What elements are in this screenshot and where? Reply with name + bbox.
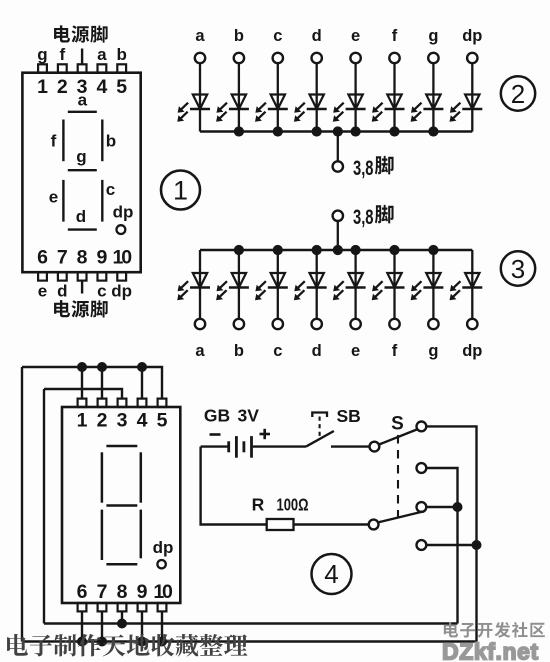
svg-text:6: 6: [77, 581, 88, 603]
svg-text:3V: 3V: [238, 406, 260, 426]
svg-text:7: 7: [57, 247, 68, 269]
svg-text:g: g: [37, 45, 47, 64]
U2 decimal point dp: [153, 538, 174, 568]
U2 figure-8 segment lower-right: [140, 510, 143, 559]
svg-text:SB: SB: [337, 406, 361, 426]
junction pin 10: [157, 637, 167, 647]
battery plus sign: [260, 429, 271, 439]
U2 pin 8 bottom lead: [117, 581, 128, 611]
diagram2 common terminal wire (pins 3,8): [333, 132, 343, 172]
junction pin 4: [137, 362, 147, 372]
wire: battery positive to SB: [253, 445, 306, 447]
U2 figure-8 segment upper-left: [101, 452, 104, 502]
diagram2 common stem junction: [333, 126, 343, 136]
diagram3 LED b with terminal: [216, 250, 249, 360]
junction pin 9: [137, 637, 147, 647]
svg-text:8: 8: [117, 581, 128, 603]
wire: SB to switch pole 1: [331, 445, 369, 447]
diagram3 bus junction: [234, 245, 244, 255]
U1 top power-pin label 电源脚: [54, 25, 108, 42]
diagram3 label 3,8脚: [353, 205, 394, 229]
svg-text:f: f: [59, 45, 65, 64]
wire: segment bus bottom (pins 6,7,9,10): [22, 640, 477, 642]
junction contact 3 / common rail: [453, 502, 463, 512]
U1 segment b: [102, 120, 116, 162]
U2 pin 10 bottom lead: [153, 581, 173, 611]
diagram3 bus junction: [351, 245, 361, 255]
diagram3 bus junction: [428, 245, 438, 255]
diagram2 LED e with terminal: [333, 27, 366, 132]
U1 segment a: [68, 91, 97, 112]
svg-text:1: 1: [173, 176, 188, 206]
callout circle 1: [161, 171, 200, 210]
svg-text:d: d: [57, 282, 67, 301]
svg-text:a: a: [78, 91, 88, 110]
svg-text:DZkf.net: DZkf.net: [442, 639, 539, 662]
junction contact 4 / right rail: [472, 540, 482, 550]
switch S pole 1 blade: [380, 429, 418, 444]
wire: pin 1 riser: [81, 367, 83, 399]
U2 pin 9 bottom lead: [137, 581, 148, 611]
U2 pin 4 top lead: [137, 399, 148, 432]
svg-text:d: d: [312, 27, 322, 45]
switch S pole 1 common: [370, 442, 380, 452]
svg-text:f: f: [392, 27, 398, 45]
diagram2 label 3,8脚: [353, 156, 394, 180]
callout circle 4: [312, 554, 352, 594]
svg-text:5: 5: [157, 410, 168, 432]
diagram2 LED g with terminal: [411, 27, 444, 132]
junction pin 6: [77, 637, 87, 647]
svg-text:1: 1: [77, 410, 88, 432]
U1 pin 2 top lead: [57, 45, 68, 98]
U1 pin 10 bottom lead: [111, 247, 132, 301]
diagram3 common anode bus wire: [200, 249, 472, 252]
U1 segment c: [102, 180, 115, 222]
U1 pin 7 bottom lead: [57, 247, 68, 301]
diagram2 LED b with terminal: [216, 27, 249, 132]
svg-text:b: b: [117, 45, 127, 64]
callout circle 2: [501, 76, 535, 110]
svg-text:d: d: [312, 342, 322, 360]
diagram3 bus junction: [312, 245, 322, 255]
svg-text:c: c: [106, 180, 115, 199]
wire: common bus top (pin 3): [44, 389, 122, 399]
U2 pin 6 bottom lead: [77, 581, 88, 611]
wire: common bus bottom (pin 8): [44, 622, 458, 624]
diagram3 LED dp with terminal: [450, 250, 483, 360]
diagram3 common terminal wire (pins 3,8): [333, 211, 343, 250]
wire: contact 3 stub: [427, 506, 458, 508]
push button SB: [306, 413, 334, 447]
switch S gang link (dashed): [397, 435, 399, 524]
wire: pin 6 drop: [81, 611, 83, 641]
svg-text:g: g: [428, 27, 438, 45]
svg-text:6: 6: [37, 247, 48, 269]
diagram3 LED d with terminal: [294, 250, 327, 360]
svg-text:b: b: [106, 132, 116, 151]
U1 segment d: [68, 207, 97, 230]
U1 segment e: [49, 180, 64, 222]
U1 segment f: [51, 120, 64, 162]
U2 pin 2 top lead: [97, 399, 108, 432]
switch S pole 2 blade: [379, 512, 423, 523]
junction pin 8: [117, 619, 127, 629]
diagram2 bus junction: [428, 126, 438, 136]
switch S contact 2: [417, 463, 427, 473]
svg-text:8: 8: [77, 247, 88, 269]
U1 pin 3 top lead: [77, 49, 88, 98]
U1 decimal point dp: [113, 203, 134, 235]
svg-text:9: 9: [137, 581, 148, 603]
svg-text:5: 5: [116, 76, 127, 98]
wire: resistor to switch pole 2: [294, 523, 369, 525]
diagram3 bus junction: [389, 245, 399, 255]
diagram2 bus junction: [234, 126, 244, 136]
diagram2 LED dp with terminal: [450, 27, 483, 132]
svg-text:3,8: 3,8: [353, 157, 374, 180]
svg-text:g: g: [76, 147, 86, 166]
diagram2 bus junction: [273, 126, 283, 136]
display U2 package outline: [62, 407, 180, 603]
U2 pin 5 top lead: [157, 399, 168, 432]
svg-text:2: 2: [57, 76, 68, 98]
U1 bottom power-pin label 电源脚: [54, 300, 108, 317]
svg-text:c: c: [273, 27, 282, 45]
wire: outer-left vertical (segment net): [21, 367, 23, 642]
diagram2 bus junction: [351, 126, 361, 136]
diagram3 bus junction: [273, 245, 283, 255]
wire: contact 2 to common rail: [427, 468, 458, 624]
svg-text:g: g: [428, 342, 438, 360]
callout circle 3: [501, 251, 535, 285]
U1 pin 9 bottom lead: [96, 247, 107, 301]
diagram2 common cathode bus wire: [200, 130, 472, 133]
svg-text:dp: dp: [462, 27, 482, 45]
svg-text:e: e: [351, 342, 360, 360]
U2 figure-8 segment bottom: [106, 563, 137, 566]
U1 pin 1 top lead: [37, 45, 48, 98]
wire: segment bus top (pins 1,2,4,5): [22, 367, 162, 399]
wire: inner-left vertical (common net): [43, 389, 45, 624]
diagram2 bus junction: [389, 126, 399, 136]
U2 figure-8 segment upper-right: [140, 452, 143, 502]
svg-text:GB: GB: [204, 406, 230, 426]
svg-text:f: f: [51, 132, 57, 151]
svg-text:d: d: [76, 207, 86, 226]
U1 pin 8 bottom lead: [77, 247, 88, 294]
svg-text:S: S: [391, 414, 404, 435]
switch S contact 1: [417, 422, 427, 432]
svg-text:c: c: [97, 282, 106, 301]
svg-text:a: a: [195, 27, 205, 45]
svg-text:R: R: [252, 495, 265, 515]
wire: pin 8 drop: [121, 611, 123, 623]
diagram2 LED a with terminal: [177, 27, 210, 132]
U1 pin 4 top lead: [96, 45, 107, 98]
svg-text:7: 7: [97, 581, 108, 603]
junction pin 2: [97, 362, 107, 372]
svg-text:1: 1: [37, 76, 48, 98]
label R 100Ω: [252, 495, 309, 515]
diagram3 LED e with terminal: [333, 250, 366, 360]
U1 pin 5 top lead: [116, 45, 127, 98]
svg-text:3: 3: [117, 410, 128, 432]
svg-text:a: a: [195, 342, 205, 360]
svg-text:dp: dp: [462, 342, 482, 360]
junction pin 7: [97, 637, 107, 647]
wire: contact 4 stub: [427, 544, 477, 546]
wire: pin 4 riser: [141, 367, 143, 399]
diagram3 LED a with terminal: [177, 250, 210, 360]
wire: pin 2 riser: [101, 367, 103, 399]
junction pin 1: [77, 362, 87, 372]
svg-text:10: 10: [153, 581, 173, 603]
svg-text:4: 4: [96, 76, 107, 98]
svg-text:c: c: [273, 342, 282, 360]
U2 pin 3 top lead: [117, 399, 128, 432]
wire: pin 10 drop: [161, 611, 163, 641]
svg-text:b: b: [234, 27, 244, 45]
svg-text:3,8: 3,8: [353, 206, 374, 229]
svg-text:a: a: [97, 45, 107, 64]
switch S pole 2 common: [369, 520, 379, 530]
svg-text:2: 2: [97, 410, 108, 432]
resistor R 100ohm: [267, 519, 294, 530]
diagram3 LED g with terminal: [411, 250, 444, 360]
svg-text:10: 10: [113, 247, 133, 269]
U2 pin 1 top lead: [77, 399, 88, 432]
U2 figure-8 segment middle: [106, 504, 137, 507]
svg-text:2: 2: [511, 79, 525, 109]
svg-text:dp: dp: [153, 538, 174, 557]
diagram2 LED c with terminal: [255, 27, 288, 132]
svg-text:e: e: [49, 188, 58, 207]
U2 figure-8 segment lower-left: [101, 510, 104, 560]
svg-text:e: e: [38, 282, 47, 301]
battery minus sign: [210, 433, 221, 436]
svg-text:4: 4: [324, 559, 338, 589]
U1 pin 6 bottom lead: [37, 247, 48, 301]
diagram2 bus junction: [312, 126, 322, 136]
diagram2 LED f with terminal: [372, 27, 405, 132]
wire: left rail battery to resistor: [201, 447, 267, 525]
U2 figure-8 segment top: [106, 445, 137, 448]
svg-text:dp: dp: [113, 203, 134, 222]
switch S contact 3: [417, 502, 427, 512]
display U1 package outline: [22, 73, 140, 273]
battery GB labels: [204, 406, 259, 426]
watermark 电子制作天地收藏整理: [7, 634, 247, 657]
watermark 电子开发社区: [444, 622, 545, 638]
wire: pin 9 drop: [141, 611, 143, 641]
svg-text:9: 9: [96, 247, 107, 269]
switch S contact 4: [417, 540, 427, 550]
wire: contact 1 to right rail: [427, 426, 477, 641]
U2 pin 7 bottom lead: [97, 581, 108, 611]
U1 segment g: [68, 147, 97, 170]
svg-text:4: 4: [137, 410, 148, 432]
svg-text:b: b: [234, 342, 244, 360]
diagram3 common stem junction: [333, 245, 343, 255]
svg-text:100Ω: 100Ω: [277, 495, 309, 515]
battery GB cells: [229, 436, 252, 458]
diagram3 LED f with terminal: [372, 250, 405, 360]
wire: battery negative to left rail: [201, 445, 228, 447]
svg-text:dp: dp: [111, 282, 132, 301]
diagram2 LED d with terminal: [294, 27, 327, 132]
wire: pin 7 drop: [101, 611, 103, 641]
diagram3 LED c with terminal: [255, 250, 288, 360]
svg-text:e: e: [351, 27, 360, 45]
svg-text:3: 3: [511, 254, 525, 284]
svg-text:f: f: [392, 342, 398, 360]
